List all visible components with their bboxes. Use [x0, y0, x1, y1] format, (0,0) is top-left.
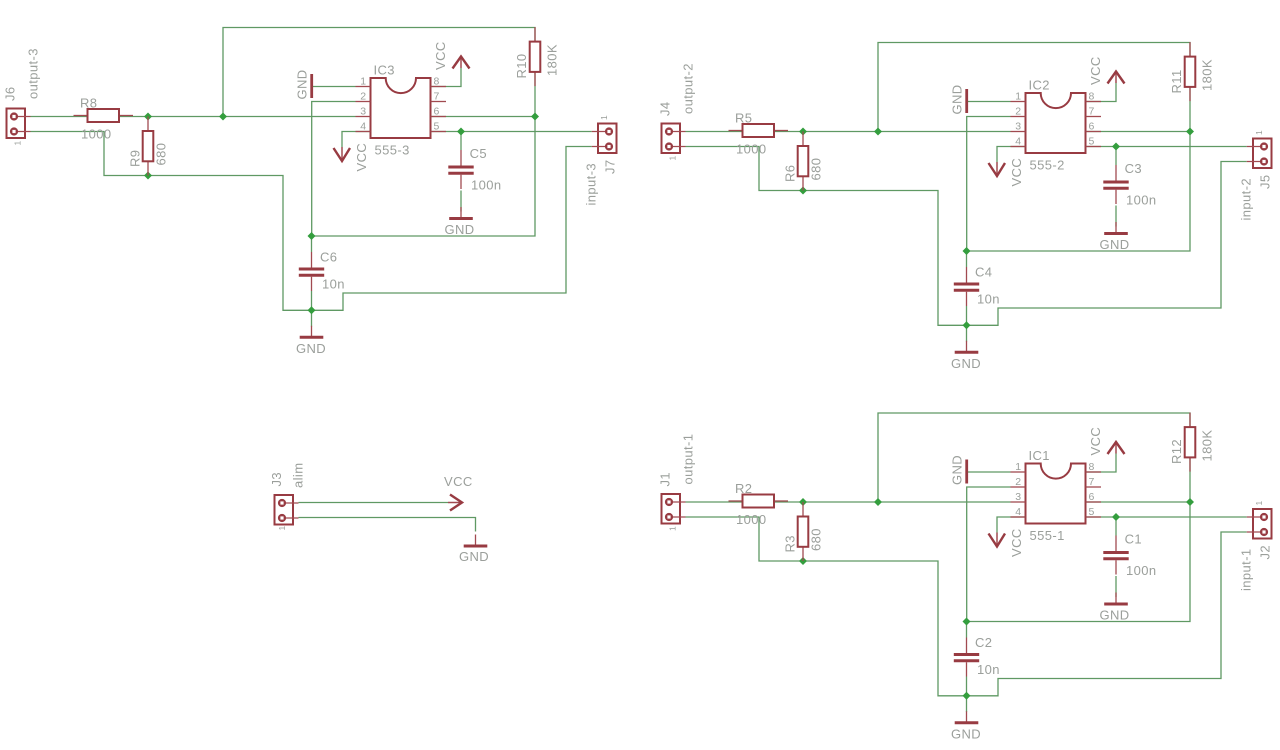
VCC symbol [1088, 56, 1125, 85]
svg-text:180K: 180K [1200, 59, 1215, 91]
wire [311, 236, 313, 252]
svg-text:J3: J3 [269, 472, 284, 487]
resistor R3 680 [783, 502, 824, 561]
VCC symbol [433, 41, 470, 70]
svg-text:1: 1 [13, 140, 23, 145]
junction [1186, 128, 1194, 136]
svg-text:1: 1 [1254, 500, 1264, 505]
svg-text:GND: GND [295, 69, 310, 99]
wire [968, 471, 1011, 473]
wire [1086, 454, 1117, 473]
wire [312, 147, 592, 311]
svg-text:180K: 180K [1200, 430, 1215, 462]
VCC symbol [334, 143, 370, 172]
svg-text:input-2: input-2 [1239, 178, 1254, 221]
wire [299, 518, 476, 532]
pin 3 [356, 116, 371, 118]
op-amp IC1 555 timer [1011, 448, 1102, 543]
capacitor C6 10n [299, 250, 345, 292]
svg-text:4: 4 [1015, 136, 1021, 148]
ground [950, 84, 967, 114]
pin 8 [1086, 471, 1102, 473]
svg-text:7: 7 [1089, 106, 1095, 118]
svg-text:J6: J6 [3, 86, 18, 101]
wire [1189, 457, 1191, 502]
svg-text:VCC: VCC [444, 474, 473, 489]
junction [963, 321, 971, 329]
pin 3 [1011, 501, 1026, 503]
pin 8 [1086, 101, 1102, 103]
wire [31, 132, 312, 311]
svg-text:R3: R3 [783, 535, 798, 552]
ground [950, 455, 967, 485]
wire [299, 502, 449, 504]
svg-text:C2: C2 [975, 635, 992, 650]
wire [431, 131, 592, 133]
junction [963, 692, 971, 700]
svg-text:7: 7 [434, 91, 440, 103]
svg-text:6: 6 [1089, 491, 1095, 503]
svg-text:J1: J1 [658, 472, 673, 487]
svg-text:GND: GND [459, 549, 489, 564]
wire [1086, 83, 1117, 102]
pin 7 [431, 101, 447, 103]
pin 6 [1086, 501, 1102, 503]
wire [967, 162, 1247, 326]
wire [686, 501, 1011, 503]
junction [144, 113, 152, 121]
pin 1 [1011, 101, 1026, 103]
wire [878, 413, 1190, 502]
junction [963, 618, 971, 626]
svg-text:GND: GND [950, 84, 965, 114]
svg-text:C3: C3 [1125, 161, 1142, 176]
svg-text:C1: C1 [1125, 532, 1142, 547]
svg-text:J5: J5 [1258, 174, 1273, 189]
resistor R5 1000 [729, 111, 789, 157]
resistor R9 680 [128, 117, 169, 176]
resistor R12 180K [1169, 413, 1215, 472]
connector J5 [1239, 130, 1273, 221]
resistor R2 1000 [729, 481, 789, 527]
svg-text:IC3: IC3 [374, 63, 395, 78]
svg-text:4: 4 [360, 121, 366, 133]
svg-text:10n: 10n [322, 277, 345, 292]
pin 7 [1086, 486, 1102, 488]
wire [686, 131, 1011, 133]
svg-text:VCC: VCC [354, 143, 369, 172]
svg-text:1: 1 [1015, 91, 1021, 103]
svg-text:J4: J4 [658, 101, 673, 116]
svg-text:555-1: 555-1 [1030, 528, 1065, 543]
svg-text:output-1: output-1 [681, 434, 696, 485]
svg-text:680: 680 [809, 528, 824, 551]
svg-text:R12: R12 [1169, 439, 1184, 464]
ground [951, 341, 981, 371]
svg-text:VCC: VCC [1009, 528, 1024, 557]
svg-text:R6: R6 [783, 165, 798, 182]
svg-text:R9: R9 [128, 150, 143, 167]
wire [686, 517, 967, 696]
wire [967, 487, 1190, 622]
svg-text:IC1: IC1 [1029, 448, 1050, 463]
svg-text:J2: J2 [1258, 545, 1273, 560]
VCC symbol [989, 158, 1025, 187]
junction [874, 128, 882, 136]
VCC symbol [444, 474, 473, 511]
wire [997, 517, 1026, 533]
svg-text:1: 1 [668, 526, 678, 531]
wire [313, 86, 356, 88]
svg-text:GND: GND [1099, 237, 1129, 252]
pin 5 [1086, 146, 1102, 148]
junction [799, 498, 807, 506]
svg-text:1000: 1000 [81, 127, 112, 142]
pin 2 [1011, 486, 1026, 488]
wire [967, 532, 1247, 696]
svg-text:2: 2 [1015, 476, 1021, 488]
wire [1086, 516, 1247, 518]
ground [444, 207, 474, 237]
pin 6 [431, 116, 447, 118]
wire [312, 102, 535, 237]
capacitor C2 10n [954, 635, 1000, 677]
wire [534, 72, 536, 117]
svg-text:input-1: input-1 [1239, 548, 1254, 591]
svg-text:2: 2 [360, 91, 366, 103]
junction [1112, 513, 1120, 521]
pin 4 [1011, 516, 1026, 518]
wire [1115, 206, 1117, 227]
wire [311, 291, 313, 327]
VCC symbol [1088, 427, 1125, 456]
resistor R10 180K [514, 27, 560, 86]
junction [1186, 498, 1194, 506]
junction [799, 557, 807, 565]
ground [951, 711, 981, 741]
junction [308, 306, 316, 314]
op-amp IC2 555 timer [1011, 78, 1102, 173]
wire [342, 132, 371, 148]
pin 2 [1011, 116, 1026, 118]
pin 6 [1086, 131, 1102, 133]
wire [1086, 146, 1247, 148]
ground [1099, 593, 1129, 623]
wire [460, 132, 462, 151]
svg-text:3: 3 [360, 106, 366, 118]
VCC symbol [989, 528, 1025, 557]
ground [459, 535, 489, 565]
svg-text:GND: GND [444, 222, 474, 237]
ground [1099, 222, 1129, 252]
svg-text:180K: 180K [545, 44, 560, 76]
pin 5 [431, 131, 447, 133]
svg-text:GND: GND [951, 726, 981, 741]
svg-text:7: 7 [1089, 476, 1095, 488]
pin 1 [356, 86, 371, 88]
pin 7 [1086, 116, 1102, 118]
svg-text:10n: 10n [977, 292, 1000, 307]
svg-text:8: 8 [434, 76, 440, 88]
wire [1086, 501, 1191, 503]
svg-text:3: 3 [1015, 121, 1021, 133]
connector J3 alim [269, 463, 306, 531]
junction [963, 247, 971, 255]
svg-text:C6: C6 [320, 250, 337, 265]
connector J6 [3, 48, 41, 145]
svg-text:8: 8 [1089, 461, 1095, 473]
svg-text:100n: 100n [471, 178, 502, 193]
wire [1086, 131, 1191, 133]
connector J7 [584, 115, 618, 206]
svg-text:10n: 10n [977, 662, 1000, 677]
pin 1 [1011, 471, 1026, 473]
wire [460, 191, 462, 212]
wire [966, 251, 968, 267]
svg-text:4: 4 [1015, 506, 1021, 518]
svg-text:1: 1 [599, 115, 609, 120]
wire [1115, 576, 1117, 597]
wire [1189, 87, 1191, 132]
svg-text:R2: R2 [735, 481, 752, 496]
wire [968, 101, 1011, 103]
svg-text:VCC: VCC [1009, 158, 1024, 187]
wire [431, 68, 462, 87]
resistor R8 1000 [74, 96, 134, 142]
svg-text:5: 5 [434, 121, 440, 133]
wire [31, 116, 356, 118]
pin 3 [1011, 131, 1026, 133]
svg-text:GND: GND [950, 455, 965, 485]
svg-text:input-3: input-3 [584, 163, 599, 206]
wire [878, 43, 1190, 132]
svg-text:J7: J7 [603, 159, 618, 174]
op-amp IC3 555 timer [356, 63, 447, 158]
wire [223, 28, 535, 117]
svg-text:1: 1 [1015, 461, 1021, 473]
svg-text:VCC: VCC [1088, 427, 1103, 456]
pin 4 [1011, 146, 1026, 148]
svg-text:C5: C5 [470, 146, 487, 161]
junction [799, 187, 807, 195]
pin 8 [431, 86, 447, 88]
junction [874, 498, 882, 506]
junction [308, 232, 316, 240]
connector J2 [1239, 500, 1273, 591]
svg-text:5: 5 [1089, 506, 1095, 518]
svg-text:VCC: VCC [1088, 56, 1103, 85]
svg-text:1: 1 [668, 155, 678, 160]
junction [144, 172, 152, 180]
svg-text:R8: R8 [80, 96, 97, 111]
capacitor C1 100n [1103, 532, 1156, 579]
junction [799, 128, 807, 136]
svg-text:8: 8 [1089, 91, 1095, 103]
svg-text:IC2: IC2 [1029, 78, 1050, 93]
pin 5 [1086, 516, 1102, 518]
wire [1115, 147, 1117, 166]
svg-text:6: 6 [434, 106, 440, 118]
svg-text:R10: R10 [514, 53, 529, 78]
svg-text:GND: GND [1099, 608, 1129, 623]
wire [967, 117, 1190, 252]
wire [966, 622, 968, 638]
capacitor C3 100n [1103, 161, 1156, 208]
svg-text:1: 1 [1254, 130, 1264, 135]
capacitor C4 10n [954, 265, 1000, 307]
svg-text:680: 680 [154, 143, 169, 166]
pin 4 [356, 131, 371, 133]
junction [457, 128, 465, 136]
svg-text:alim: alim [291, 463, 306, 488]
svg-text:5: 5 [1089, 136, 1095, 148]
wire [431, 116, 536, 118]
svg-text:100n: 100n [1126, 193, 1157, 208]
svg-text:GND: GND [951, 356, 981, 371]
resistor R6 680 [783, 132, 824, 191]
junction [531, 113, 539, 121]
connector J1 [658, 434, 696, 531]
resistor R11 180K [1169, 42, 1215, 101]
svg-text:output-2: output-2 [681, 63, 696, 114]
svg-text:6: 6 [1089, 121, 1095, 133]
svg-text:1: 1 [277, 525, 287, 530]
svg-text:555-2: 555-2 [1030, 158, 1065, 173]
wire [1115, 517, 1117, 536]
wire [966, 306, 968, 342]
svg-text:100n: 100n [1126, 563, 1157, 578]
svg-text:1000: 1000 [736, 512, 767, 527]
wire [686, 147, 967, 326]
svg-text:R5: R5 [735, 111, 752, 126]
svg-text:3: 3 [1015, 491, 1021, 503]
ground [296, 326, 326, 356]
ground [295, 69, 312, 99]
svg-text:555-3: 555-3 [375, 143, 410, 158]
wire [997, 147, 1026, 163]
svg-text:C4: C4 [975, 265, 992, 280]
svg-text:R11: R11 [1169, 69, 1184, 93]
capacitor C5 100n [448, 146, 501, 193]
junction [1112, 143, 1120, 151]
connector J4 [658, 63, 696, 160]
wire [966, 677, 968, 713]
svg-text:1: 1 [360, 76, 366, 88]
svg-text:output-3: output-3 [26, 48, 41, 99]
svg-text:1000: 1000 [736, 142, 767, 157]
svg-text:VCC: VCC [433, 41, 448, 70]
junction [219, 113, 227, 121]
svg-text:GND: GND [296, 341, 326, 356]
svg-text:2: 2 [1015, 106, 1021, 118]
pin 2 [356, 101, 371, 103]
svg-text:680: 680 [809, 158, 824, 181]
